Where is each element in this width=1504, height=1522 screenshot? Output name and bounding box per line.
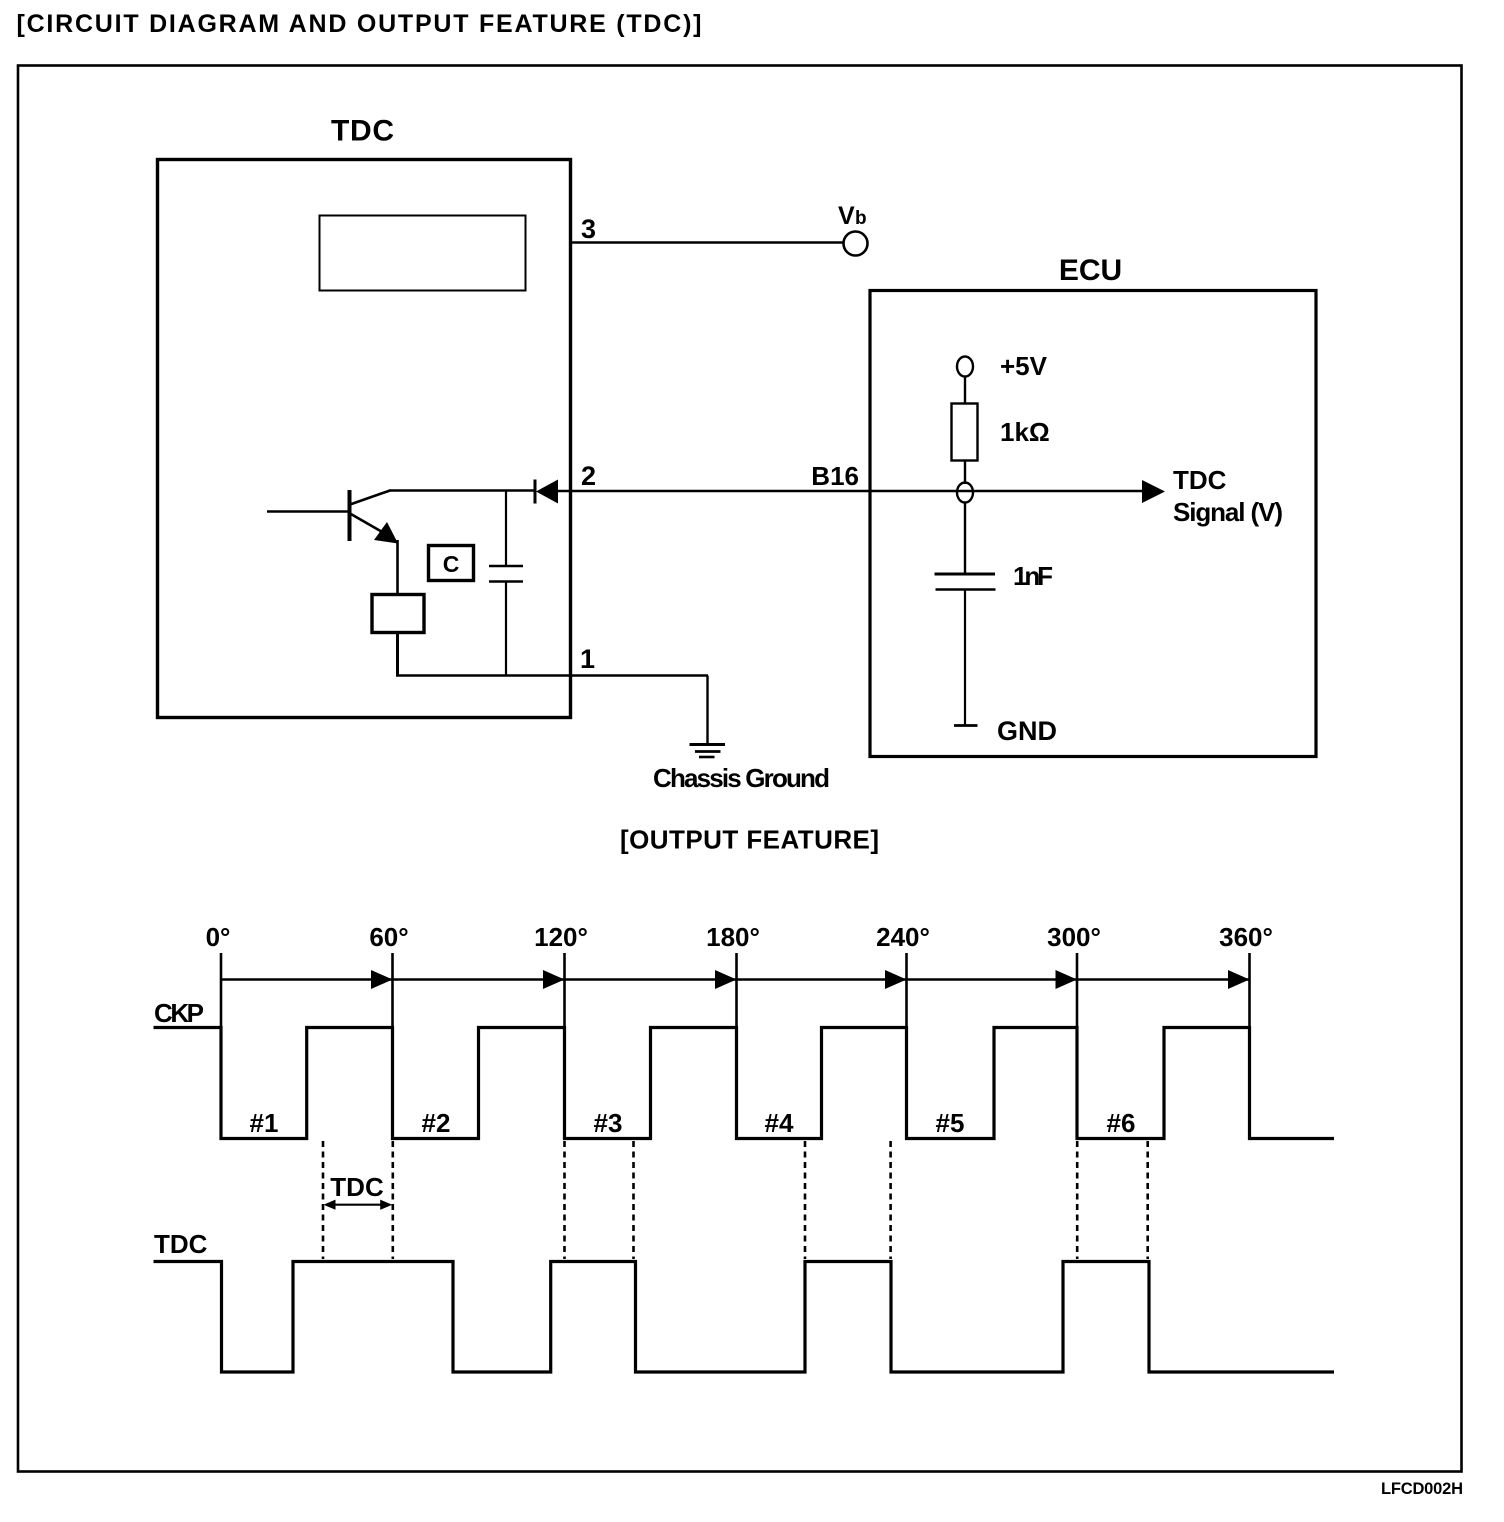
svg-text:V: V	[838, 202, 855, 230]
base bar	[348, 490, 352, 541]
collector diagonal	[350, 491, 390, 505]
anode triangle	[536, 480, 558, 504]
svg-text:2: 2	[581, 461, 596, 491]
wire node to 1nF cap	[964, 502, 966, 573]
svg-text:#6: #6	[1107, 1108, 1136, 1138]
TDC width double arrow	[327, 1204, 389, 1206]
chassis ground symbol	[690, 745, 726, 758]
svg-text:C: C	[443, 551, 460, 577]
top lead	[505, 491, 507, 567]
svg-text:TDC: TDC	[331, 115, 394, 148]
wire pin1 rail	[396, 674, 708, 677]
wire pin3 to Vb	[570, 241, 843, 243]
emitter arrow head	[374, 522, 398, 544]
svg-text:#5: #5	[936, 1108, 965, 1138]
capacitor 1nF	[935, 574, 996, 590]
cathode bar	[534, 480, 537, 504]
TDC waveform	[154, 1262, 1335, 1373]
svg-text:#2: #2	[422, 1108, 451, 1138]
collector wire to diode	[389, 489, 534, 491]
emitter diagonal	[350, 514, 390, 537]
svg-text:LFCD002H: LFCD002H	[1381, 1480, 1463, 1498]
svg-text:300°: 300°	[1047, 922, 1101, 952]
svg-text:Chassis Ground: Chassis Ground	[653, 763, 830, 793]
bottom plate	[489, 580, 523, 583]
svg-text:#1: #1	[250, 1108, 279, 1138]
svg-text:Signal (V): Signal (V)	[1173, 497, 1283, 527]
svg-text:3: 3	[581, 214, 596, 244]
svg-text:TDC: TDC	[154, 1229, 208, 1259]
transistor Q1	[267, 490, 398, 544]
arrow heads	[371, 970, 393, 989]
waveform diagram	[154, 922, 1335, 1372]
dashed alignment lines	[322, 1141, 325, 1259]
capacitor (inside TDC)	[489, 491, 523, 676]
inner rectangle (sensor element)	[320, 216, 526, 291]
svg-text:1: 1	[580, 644, 595, 674]
diode D1	[535, 480, 558, 504]
TDC signal arrow head	[1142, 480, 1165, 503]
CKP waveform	[154, 1028, 1335, 1139]
wire +5V to resistor	[964, 377, 966, 405]
wire 1nF to GND	[964, 590, 966, 726]
+5V terminal circle	[957, 357, 973, 377]
TDC sensor box	[158, 160, 571, 718]
svg-text:b: b	[855, 208, 867, 229]
resistor 1kOhm	[952, 404, 978, 461]
svg-text:1nF: 1nF	[1013, 561, 1053, 591]
terminal Vb circle	[844, 232, 868, 256]
ECU box	[870, 291, 1316, 757]
svg-text:[CIRCUIT DIAGRAM AND OUTPUT FE: [CIRCUIT DIAGRAM AND OUTPUT FEATURE (TDC…	[17, 10, 702, 38]
degree tick lines	[220, 953, 223, 1138]
svg-text:ECU: ECU	[1059, 254, 1122, 287]
C box (capacitor label)	[429, 546, 474, 581]
top plate	[489, 565, 523, 568]
svg-text:GND: GND	[997, 716, 1057, 746]
GND terminal tick	[954, 724, 978, 727]
svg-text:CKP: CKP	[154, 998, 204, 1028]
emitter vertical wire	[396, 540, 399, 594]
bottom lead	[505, 582, 507, 676]
svg-text:TDC: TDC	[1173, 465, 1227, 495]
svg-text:120°: 120°	[534, 922, 588, 952]
node B16 junction circle	[957, 483, 973, 503]
wire down to chassis ground	[706, 676, 708, 745]
wire resistor to node B16	[964, 461, 966, 485]
svg-text:180°: 180°	[706, 922, 760, 952]
wire coil to pin1 rail	[396, 632, 399, 676]
svg-text:60°: 60°	[369, 922, 408, 952]
base stub wire	[267, 510, 349, 512]
rotation arrow line	[221, 978, 1250, 980]
svg-text:+5V: +5V	[1000, 351, 1048, 381]
pickup coil box	[372, 595, 424, 633]
svg-text:0°: 0°	[206, 922, 231, 952]
svg-text:TDC: TDC	[330, 1172, 384, 1202]
svg-text:#3: #3	[594, 1108, 623, 1138]
wire pin2 to ECU (B16)	[557, 490, 1143, 492]
svg-text:1kΩ: 1kΩ	[1000, 417, 1050, 447]
svg-text:B16: B16	[811, 461, 859, 491]
svg-text:360°: 360°	[1219, 922, 1273, 952]
svg-text:240°: 240°	[876, 922, 930, 952]
svg-text:[OUTPUT FEATURE]: [OUTPUT FEATURE]	[620, 825, 879, 855]
svg-text:#4: #4	[765, 1108, 794, 1138]
